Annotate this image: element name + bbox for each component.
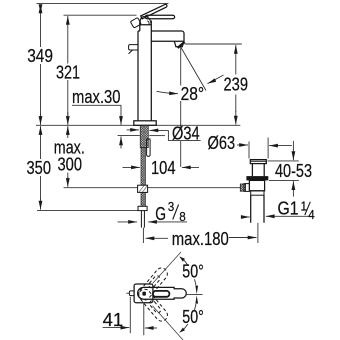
plan view lever slot (153, 291, 170, 297)
dimension 41 (103, 297, 157, 336)
drain side nub (244, 184, 249, 192)
wire: extension line closed lever height (64, 14, 137, 16)
wire: extension line top (raised lever height) (37, 3, 169, 5)
faucet connection pipes (141, 211, 144, 228)
svg-text:41: 41 (103, 309, 124, 330)
faucet lever cap tilted (130, 17, 141, 28)
dimension diameter 34 (127, 123, 201, 144)
svg-text:40-53: 40-53 (275, 160, 312, 181)
faucet threaded shank (140, 125, 148, 147)
dimension 239 (224, 45, 249, 125)
wire: aerator plumb / centerline (180, 47, 182, 167)
faucet spout arm (151, 31, 184, 41)
svg-text:3: 3 (168, 200, 175, 214)
drain rod end block (240, 184, 245, 191)
dimension max.300 (54, 126, 85, 187)
svg-text:50°: 50° (182, 262, 204, 282)
faucet side knob (pull-rod knob) (129, 45, 139, 54)
wire: deck top line (36, 124, 240, 126)
plan view lever handle (138, 287, 187, 299)
svg-text:321: 321 (56, 62, 80, 83)
dimension 349 (27, 4, 53, 125)
svg-text:G1: G1 (278, 198, 299, 219)
faucet G3/8 nut (138, 206, 147, 210)
faucet base plate (134, 121, 156, 126)
dimension G1 1/4 (242, 198, 315, 223)
plan view dashed lever -50 (136, 287, 169, 324)
svg-text:Ø34: Ø34 (172, 123, 200, 144)
dimension max.180 (146, 228, 257, 249)
label 28 deg leader left (157, 91, 179, 93)
drain cap (250, 160, 266, 164)
svg-text:Ø63: Ø63 (208, 132, 236, 153)
dimension 50 deg upper (153, 252, 204, 294)
wire: extension line hose end (350 bottom) (37, 209, 138, 211)
dimension G3/8 (118, 200, 188, 224)
svg-text:50°: 50° (182, 307, 204, 327)
svg-text:28°: 28° (181, 83, 205, 104)
svg-text:239: 239 (224, 73, 249, 94)
svg-text:349: 349 (27, 45, 53, 66)
faucet closed lever (145, 15, 174, 18)
svg-text:300: 300 (58, 154, 83, 175)
wire: extension line spout height (185, 43, 242, 45)
faucet hose coupling block (138, 185, 148, 192)
plan view spout tip (129, 291, 134, 296)
svg-text:350: 350 (27, 157, 52, 178)
drain body (249, 180, 264, 190)
drain tail thread (251, 195, 264, 223)
faucet body column (138, 31, 151, 121)
faucet pull rod (147, 139, 151, 156)
wire: linkage line to drain (max.300 bottom) (64, 187, 241, 189)
svg-text:4: 4 (308, 208, 315, 222)
dimension 50 deg lower (153, 295, 204, 340)
svg-text:max.180: max.180 (172, 228, 229, 249)
faucet raised lever (141, 4, 167, 19)
wire: plan centerline right (186, 293, 202, 295)
faucet supply hose (141, 148, 145, 207)
plan view pivot dot (142, 292, 146, 296)
dimension 40-53 (268, 141, 314, 197)
dimension 350 (27, 126, 52, 210)
dimension 321 (56, 16, 80, 125)
wire: water stream line 28deg (181, 47, 206, 91)
faucet aerator (174, 41, 184, 47)
plan view base square (134, 284, 153, 303)
faucet aerator outlet face (178, 42, 185, 48)
faucet head block (140, 21, 152, 32)
wire: faucet centerline extension (142, 228, 144, 243)
drain neck (252, 164, 264, 177)
plan view dashed lever +50 (136, 266, 169, 303)
svg-text:max.30: max.30 (72, 86, 121, 107)
wire: deck bottom line (118, 135, 140, 137)
drain flange seal (246, 176, 268, 180)
svg-text:104: 104 (151, 157, 176, 178)
svg-text:G: G (155, 203, 166, 224)
svg-text:8: 8 (179, 210, 186, 224)
dimension 104 (123, 157, 200, 178)
wire: drain centerline (257, 223, 259, 243)
dimension diameter 63 (208, 132, 292, 159)
faucet pivot body (140, 16, 151, 24)
dimension max.30 (deck thickness) (72, 86, 121, 149)
label 28 deg leader right (207, 75, 223, 84)
